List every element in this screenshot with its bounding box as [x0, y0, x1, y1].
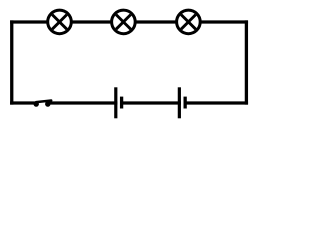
wire bottom (through switch and battery)	[10, 101, 248, 104]
B1 negative plate (short)	[120, 97, 123, 109]
B1 positive plate (long)	[114, 87, 117, 118]
battery cell B2 gap	[181, 100, 184, 107]
B2 positive plate (long)	[178, 87, 181, 118]
S1 right terminal	[45, 101, 50, 106]
switch S1 (closed)	[34, 101, 52, 107]
lamp L2	[112, 10, 136, 34]
S1 left terminal	[34, 101, 39, 106]
B2 negative plate (short)	[183, 97, 186, 109]
battery cell B2	[179, 87, 185, 118]
lamp L1	[48, 10, 72, 34]
battery cell B1 gap	[117, 100, 120, 107]
switch S1 gap	[39, 100, 46, 107]
wire right	[245, 20, 248, 104]
wire top (between lamps L1-L3)	[10, 20, 248, 23]
S1 lever	[36, 101, 51, 103]
wire left	[10, 20, 13, 104]
lamp L3	[177, 10, 201, 34]
battery cell B1	[116, 87, 122, 118]
